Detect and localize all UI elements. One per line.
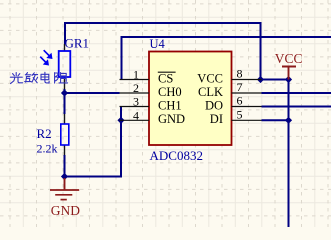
wire VCC rail down right side to bottom edge [288, 80, 290, 228]
wire CS net from pin 1 up and right to edge [122, 37, 331, 80]
wire VCC top route from GR1 top to pin 8 [65, 23, 261, 80]
svg-text:DO: DO [205, 98, 223, 112]
pin 7 CLK [198, 80, 262, 99]
label photoresistor value (Chinese) [10, 72, 67, 83]
svg-text:6: 6 [237, 94, 243, 108]
svg-text:GND: GND [158, 112, 185, 126]
wire GR1 bottom to divider junction [64, 89, 66, 93]
svg-text:CS: CS [158, 71, 173, 85]
wire DO to right edge [262, 106, 331, 108]
svg-text:5: 5 [237, 107, 243, 121]
wire divider junction to R2 top [64, 93, 66, 114]
pin 8 VCC [197, 67, 261, 86]
resistor R2 [61, 114, 69, 155]
junction GND pin on ground wire [117, 117, 124, 124]
junction VCC stem node [285, 76, 292, 83]
wire CH1 and GND pins down to ground rail [65, 107, 122, 177]
svg-text:R2: R2 [37, 126, 52, 141]
svg-text:CH1: CH1 [158, 98, 182, 112]
power VCC symbol [275, 51, 303, 80]
ground GND symbol [50, 178, 80, 218]
junction ground node [61, 173, 68, 180]
pin 6 DO [205, 94, 262, 113]
svg-text:U4: U4 [150, 37, 166, 51]
wire CH0 from divider junction to pin 2 [65, 92, 120, 94]
svg-text:4: 4 [133, 108, 139, 122]
wire R2 bottom to ground junction [64, 155, 66, 180]
svg-text:VCC: VCC [275, 51, 303, 66]
svg-text:CLK: CLK [198, 85, 223, 99]
svg-text:2.2k: 2.2k [37, 142, 58, 156]
svg-text:2: 2 [133, 81, 139, 95]
junction divider node (GR1/R2/CH0) [61, 89, 68, 96]
junction DI to VCC rail [285, 117, 292, 124]
pin 5 DI [210, 107, 262, 126]
junction pin 8 wire corner [257, 76, 264, 83]
svg-text:8: 8 [237, 67, 243, 81]
wire CLK to right edge [262, 92, 331, 94]
svg-text:1: 1 [133, 68, 139, 82]
op-amp U4 IC body ADC0832 [149, 52, 232, 146]
pin 4 GND [120, 108, 186, 126]
svg-text:7: 7 [237, 80, 243, 94]
svg-text:3: 3 [133, 95, 139, 109]
wire DI to VCC rail [262, 119, 289, 121]
photoresistor GR1 [40, 44, 70, 89]
pin 1 CS [120, 68, 176, 86]
wire pin 8 to VCC stem [261, 79, 289, 81]
svg-text:GND: GND [51, 203, 80, 218]
svg-text:CH0: CH0 [158, 85, 182, 99]
svg-text:DI: DI [210, 112, 223, 126]
svg-text:ADC0832: ADC0832 [150, 148, 203, 163]
pin 3 CH1 [120, 95, 182, 113]
svg-text:VCC: VCC [197, 71, 223, 85]
svg-text:GR1: GR1 [65, 36, 90, 51]
pin 2 CH0 [120, 81, 182, 99]
